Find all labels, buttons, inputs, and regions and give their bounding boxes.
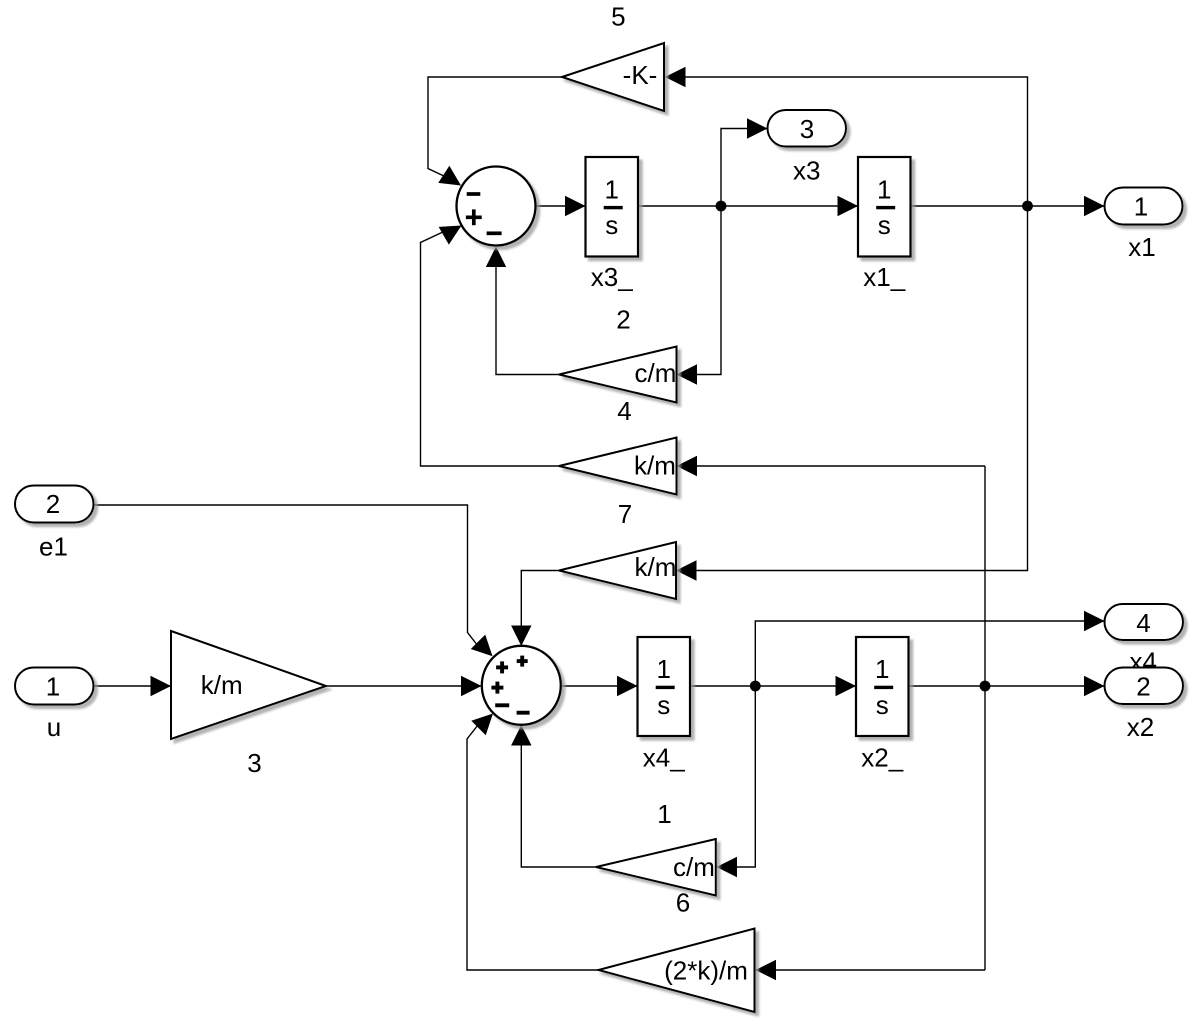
svg-text:1: 1 [605,174,619,204]
wire sum 1 output to integrator x4_ [561,685,638,687]
arrowhead sum1 lower-left input [439,217,467,245]
svg-text:2: 2 [1136,672,1150,702]
wire branch from node A down to gain 4 input [678,206,721,375]
arrowhead sum2 bottom input [511,725,531,746]
svg-text:(2*k)/m: (2*k)/m [664,956,748,986]
wire gain 5 output to sum 2 upper-left input [428,77,562,177]
arrowhead into gain 4 [677,364,698,384]
wire feedback x1 junction up to gain 5 input [666,77,1028,206]
integrator x1_ [858,157,911,257]
svg-text:7: 7 [618,499,632,529]
wire gain 7 output to sum 2 lower-left input [421,231,560,466]
outport 3 [768,110,847,147]
wire x4_ output to integrator x2_ [690,685,856,687]
wire gain 7 input from node D vertical [984,466,986,970]
svg-text:2: 2 [46,489,60,519]
arrowhead into outport 4 [1084,611,1105,631]
svg-text:u: u [47,712,61,742]
svg-text:x1_: x1_ [863,262,905,292]
svg-text:1: 1 [657,654,671,684]
wire x1_ output to outport 1 [911,205,1105,207]
svg-text:3: 3 [800,114,814,144]
svg-text:-K-: -K- [623,60,658,90]
svg-text:x4_: x4_ [643,743,685,773]
svg-text:x3_: x3_ [591,262,633,292]
svg-text:2: 2 [616,305,630,335]
arrowhead into gain 3 [151,676,172,696]
integrator x2_ [856,637,909,736]
arrowhead into gain 5 [665,67,686,87]
svg-text:k/m: k/m [201,670,243,700]
svg-text:x2_: x2_ [861,743,903,773]
sum S2 sign marks [491,656,529,713]
arrowhead into gain (2*k)/m [756,960,777,980]
wire branch from node B down to gain k/m input [678,206,1028,571]
wire gain 6 output to sum 1 bottom input [521,727,596,867]
arrowhead into gain 6 [717,857,738,877]
svg-text:k/m: k/m [634,451,676,481]
arrowhead into outport 1 [1084,196,1105,216]
svg-text:4: 4 [617,396,631,426]
wire branch node C down to gain 6 input [717,686,755,867]
svg-text:k/m: k/m [635,552,677,582]
inport 2 e1 [15,486,94,523]
svg-text:x2: x2 [1127,712,1154,742]
svg-text:s: s [657,690,670,720]
gain 7 k/m [559,438,677,495]
wire branch node C up to outport 4 [755,621,1104,686]
gain 4 c/m [559,347,677,403]
wire gain 3 output to sum 1 left input [326,685,482,687]
gain (2*k)/m [599,929,755,1013]
gain k/m (unnumbered) [559,542,676,599]
arrowhead sum1 bottom input [486,247,506,268]
wire node D bottom corner to gain (2*k)/m input [756,969,985,971]
svg-text:1: 1 [657,799,671,829]
arrowhead sum1 upper-left input [438,166,466,194]
svg-text:3: 3 [247,748,261,778]
sum S1 sign marks [466,194,502,233]
wire gain (2*k)/m output to sum 1 lower-left input [467,725,599,970]
sum S2 (bottom) [482,646,561,725]
svg-text:4: 4 [1136,608,1150,638]
outport 4 [1105,604,1184,640]
svg-text:s: s [878,210,891,240]
arrowhead into gain k/m [676,560,697,580]
svg-text:e1: e1 [39,532,68,562]
gain 5 -K- [562,43,664,111]
sum S1 (top) [457,167,536,246]
wire sum 2 output to integrator x3_ [536,205,586,207]
integrator x4_ [638,637,691,736]
arrowhead sum2 upper-left input [471,635,500,664]
wire gain 4 output to sum 2 bottom input [496,248,559,375]
arrowhead into integrator x1_ [838,196,859,216]
svg-text:6: 6 [676,888,690,918]
svg-text:x1: x1 [1128,232,1155,262]
svg-text:1: 1 [1134,192,1148,222]
svg-text:x3: x3 [793,155,820,185]
gain 3 k/m [171,631,326,739]
gain 6 c/m [596,839,716,896]
wire inport 2 e1 to sum 1 upper-left input [94,505,479,646]
wire node D top corner to gain 7 input [678,465,985,467]
arrowhead sum2 top input [511,626,531,647]
svg-text:c/m: c/m [635,358,677,388]
svg-text:s: s [876,690,889,720]
arrowhead into integrator x4_ [617,676,638,696]
junction node B [1022,201,1033,212]
arrowhead into gain 7 [677,456,698,476]
svg-text:1: 1 [877,174,891,204]
arrowhead sum2 lower-left input [471,706,500,735]
arrowhead into outport 3 [747,118,768,138]
svg-text:5: 5 [611,2,625,32]
arrowhead into outport 2 [1084,676,1105,696]
wire x3_ output to integrator x1_ [638,205,858,207]
wire inport 1 u to gain 3 [94,685,172,687]
junction node C [750,681,761,692]
outport 1 [1105,188,1183,225]
junction node A [716,201,727,212]
svg-text:1: 1 [875,654,889,684]
inport 1 u [15,668,94,705]
junction node D [980,681,991,692]
outport 2 [1105,668,1184,705]
wire branch from node A up to outport 3 [721,129,768,207]
svg-text:s: s [605,210,618,240]
arrowhead sum2 left input [461,676,482,696]
svg-text:1: 1 [46,671,60,701]
arrowhead into integrator x2_ [836,676,857,696]
wire gain k/m output to sum 1 top input [521,571,559,649]
integrator x3_ [586,157,639,257]
wire x2_ output to outport 2 [909,685,1105,687]
svg-text:c/m: c/m [673,852,715,882]
arrowhead into integrator x3_ [565,196,586,216]
